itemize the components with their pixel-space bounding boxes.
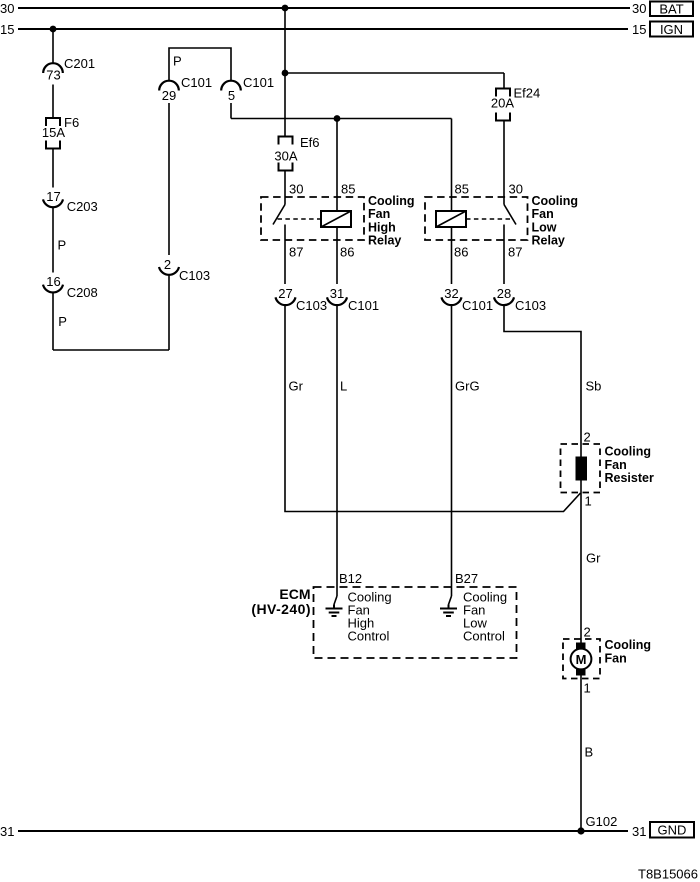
svg-text:Fan: Fan [532,207,554,221]
svg-text:30A: 30A [274,149,297,164]
svg-text:Ef6: Ef6 [300,135,320,150]
svg-text:5: 5 [228,88,235,103]
svg-text:C203: C203 [67,199,98,214]
svg-text:1: 1 [585,494,592,509]
svg-text:Control: Control [463,629,505,644]
svg-text:P: P [58,314,67,329]
svg-text:C208: C208 [67,285,98,300]
svg-text:Cooling: Cooling [605,638,652,652]
svg-text:C103: C103 [296,298,327,313]
svg-text:C103: C103 [515,298,546,313]
svg-text:Fan: Fan [368,207,390,221]
svg-text:T8B15066: T8B15066 [638,867,698,882]
svg-text:87: 87 [508,245,522,260]
svg-text:86: 86 [454,245,468,260]
svg-text:B: B [585,745,594,760]
svg-text:86: 86 [340,245,354,260]
svg-text:28: 28 [497,286,511,301]
svg-text:C101: C101 [348,298,379,313]
svg-text:16: 16 [46,274,60,289]
svg-text:27: 27 [278,286,292,301]
svg-text:ECM: ECM [279,586,310,602]
svg-text:31: 31 [632,824,646,839]
svg-text:F6: F6 [64,115,79,130]
svg-text:C201: C201 [64,56,95,71]
svg-text:30: 30 [632,1,646,16]
svg-text:31: 31 [330,286,344,301]
svg-text:Fan: Fan [605,458,627,472]
svg-text:17: 17 [46,189,60,204]
svg-text:Low: Low [532,220,557,234]
svg-text:Sb: Sb [586,379,602,394]
svg-text:Gr: Gr [586,551,601,566]
svg-text:87: 87 [289,245,303,260]
svg-text:30: 30 [509,182,523,197]
svg-text:Control: Control [348,629,390,644]
svg-text:2: 2 [164,257,171,272]
svg-text:32: 32 [444,286,458,301]
svg-text:29: 29 [162,88,176,103]
svg-text:Relay: Relay [532,234,565,248]
svg-text:Fan: Fan [605,652,627,666]
svg-text:B12: B12 [339,571,362,586]
svg-text:Gr: Gr [289,379,304,394]
svg-text:Cooling: Cooling [605,445,652,459]
svg-text:B27: B27 [455,571,478,586]
svg-text:High: High [368,220,396,234]
svg-text:P: P [58,238,67,253]
svg-text:L: L [340,379,347,394]
svg-text:1: 1 [584,681,591,696]
svg-text:2: 2 [584,625,591,640]
svg-text:C101: C101 [243,75,274,90]
svg-text:85: 85 [455,182,469,197]
svg-text:20A: 20A [491,96,514,111]
svg-text:Cooling: Cooling [368,194,415,208]
svg-text:Cooling: Cooling [532,194,579,208]
svg-text:(HV-240): (HV-240) [251,601,311,617]
svg-text:P: P [173,54,182,69]
svg-text:C101: C101 [462,298,493,313]
svg-text:15: 15 [632,22,646,37]
svg-text:BAT: BAT [659,1,683,16]
svg-text:IGN: IGN [660,22,683,37]
svg-text:73: 73 [46,68,60,83]
svg-text:GND: GND [658,823,687,838]
svg-text:2: 2 [584,430,591,445]
svg-text:C101: C101 [181,75,212,90]
svg-text:15A: 15A [42,125,65,140]
svg-text:30: 30 [289,182,303,197]
svg-text:Ef24: Ef24 [514,86,541,101]
svg-text:30: 30 [0,1,14,16]
svg-text:15: 15 [0,22,14,37]
svg-text:M: M [576,652,587,667]
svg-text:Resister: Resister [605,471,654,485]
svg-text:C103: C103 [179,268,210,283]
svg-text:85: 85 [341,182,355,197]
svg-text:GrG: GrG [455,379,480,394]
svg-text:31: 31 [0,824,14,839]
svg-text:G102: G102 [586,814,618,829]
svg-text:Relay: Relay [368,234,401,248]
